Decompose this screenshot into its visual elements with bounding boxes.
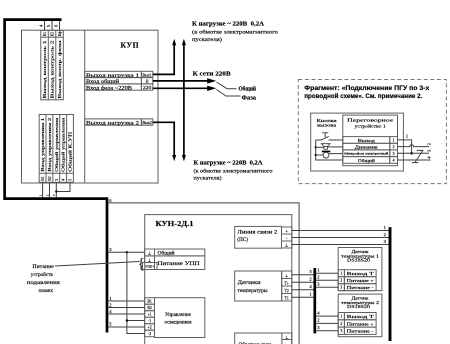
svg-text:⊥: ⊥ xyxy=(148,257,152,262)
wire 3 (cable to KUN common) xyxy=(109,247,145,252)
wire 3 (cable 2 to sensor 2 pin 3) xyxy=(316,325,338,331)
fragment note dashed box xyxy=(298,80,446,184)
svg-text:1: 1 xyxy=(340,315,342,319)
svg-text:⊥: ⊥ xyxy=(285,243,289,248)
svg-text:2: 2 xyxy=(340,279,342,283)
wire 3 (sensor common to cable 2) xyxy=(292,269,314,275)
label K nagruzke top xyxy=(192,21,278,44)
wire 1 (sensor T1 to cable 2) xyxy=(292,292,314,298)
svg-text:Вход управления 1: Вход управления 1 xyxy=(40,117,45,172)
jumper terminal 3 to terminal 5 xyxy=(56,182,70,191)
svg-text:Общий К.УП: Общий К.УП xyxy=(68,131,73,172)
svg-text:⊥: ⊥ xyxy=(285,273,289,278)
svg-text:КУП: КУП xyxy=(121,41,140,50)
svg-text:Датчики: Датчики xyxy=(238,280,261,286)
cable bus to hoistway devices xyxy=(5,20,107,333)
terminal cell UPP+ xyxy=(143,263,158,270)
wire 4 (K1 to cable) xyxy=(39,21,45,30)
block: Liniya svyazi 2 (PS) xyxy=(235,226,292,248)
svg-text:вызова: вызова xyxy=(317,123,336,128)
wire 3 (cable 2 to sensor 1 pin 3) xyxy=(316,281,338,287)
svg-text:Вых2: Вых2 xyxy=(142,120,152,125)
svg-text:+2: +2 xyxy=(148,326,152,330)
svg-text:Общий управления: Общий управления xyxy=(61,117,66,172)
wire 1 (line + to cable 3) xyxy=(292,225,389,231)
junction dot neutral to common xyxy=(183,80,186,83)
svg-text:⊥: ⊥ xyxy=(148,251,152,256)
svg-text:В2: В2 xyxy=(147,306,152,310)
wire pgu 4 (common out) xyxy=(398,156,432,160)
svg-text:К1: К1 xyxy=(43,32,47,37)
svg-text:Вых1: Вых1 xyxy=(142,72,152,77)
label Pitanie ustroystv podavleniya pomeh xyxy=(27,264,60,294)
svg-text:2: 2 xyxy=(393,145,395,149)
group-of-wires slash mark xyxy=(412,150,424,162)
cable bus 3 (communication line) xyxy=(389,227,392,341)
svg-text:К2: К2 xyxy=(51,32,55,37)
fragment outer solid box xyxy=(311,113,404,171)
block: temperature sensor 1 DS18S20 xyxy=(338,248,382,291)
svg-text:устройство 1: устройство 1 xyxy=(355,123,387,128)
brace grouping UPP terminals xyxy=(138,256,145,272)
svg-text:DS18S20: DS18S20 xyxy=(347,304,371,309)
wire mains phase (220 terminal to network) xyxy=(153,86,217,91)
svg-text:Т1: Т1 xyxy=(285,296,289,300)
svg-text:Выход контроль 2: Выход контроль 2 xyxy=(50,39,55,98)
svg-text:В2: В2 xyxy=(48,176,52,181)
svg-text:+1: +1 xyxy=(148,313,152,317)
terminal row: Vyhod nagruzka 1 xyxy=(85,71,153,79)
svg-text:Общий управления: Общий управления xyxy=(54,117,59,172)
svg-text:3: 3 xyxy=(340,329,342,333)
svg-text:Питание -: Питание - xyxy=(347,329,375,334)
svg-text:Вход управления 2: Вход управления 2 xyxy=(47,117,52,172)
svg-text:+: + xyxy=(285,229,288,234)
block: temperature sensor 2 DS18S20 xyxy=(338,294,382,337)
svg-text:1: 1 xyxy=(340,272,342,276)
svg-text:Вход фаза ~220В: Вход фаза ~220В xyxy=(86,84,133,91)
svg-text:-2: -2 xyxy=(148,332,151,336)
terminal block: lighting control rows xyxy=(145,298,205,338)
wire 3 (line common to cable 3) xyxy=(292,239,389,245)
svg-text:В1: В1 xyxy=(41,176,45,181)
svg-text:К нагрузке ~ 220В 0,2А: К нагрузке ~ 220В 0,2А xyxy=(192,21,265,28)
svg-text:-1: -1 xyxy=(148,319,151,323)
svg-text:Выход контроль 1: Выход контроль 1 xyxy=(42,39,47,98)
wire 5 (K2 to cable) xyxy=(46,21,52,30)
svg-text:К нагрузке ~ 220В 0,2А: К нагрузке ~ 220В 0,2А xyxy=(194,159,264,166)
svg-text:Фрагмент: «Подключение ПГУ по: Фрагмент: «Подключение ПГУ по 3-х xyxy=(304,86,430,92)
terminal row: Vhod faza 220V xyxy=(85,84,153,92)
svg-text:220: 220 xyxy=(143,85,152,90)
wire 6a (Kf to cable) xyxy=(54,21,60,30)
svg-text:Выход Т: Выход Т xyxy=(347,271,374,276)
junction dot minus branch xyxy=(126,319,128,321)
wire 2 (line - to cable 3) xyxy=(292,232,389,238)
junction dot on wire 3a xyxy=(55,190,57,192)
leader line to UPP terminals xyxy=(55,262,140,267)
svg-text:(к обмотке электромагнитного: (к обмотке электромагнитного xyxy=(192,29,278,36)
junction dot wire 3 xyxy=(126,251,128,253)
call button symbol xyxy=(316,133,343,140)
block: feedback box (clipped at bottom) xyxy=(235,333,292,344)
svg-text:пускателя): пускателя) xyxy=(192,36,222,43)
wire 4 (cable to +1) xyxy=(109,309,145,314)
svg-text:проводной схеме». См. примечан: проводной схеме». См. примечание 2. xyxy=(304,93,422,100)
block KUN-2D.1 box xyxy=(145,215,292,344)
wire pgu 1 (output joins microphone wire) xyxy=(398,133,412,153)
leader and label Obschiy xyxy=(217,82,257,92)
svg-text:освещением: освещением xyxy=(164,319,192,325)
speaker symbol xyxy=(316,144,343,150)
wire 5 (cable to +2) xyxy=(109,322,145,327)
wire 1a (V1 to cable) xyxy=(39,182,42,197)
junction dot microphone xyxy=(315,154,317,156)
svg-text:КУН-2Д.1: КУН-2Д.1 xyxy=(156,220,195,228)
svg-text:2: 2 xyxy=(340,322,342,326)
svg-text:4: 4 xyxy=(62,179,66,181)
svg-text:Питание: Питание xyxy=(32,264,54,270)
svg-text:В1: В1 xyxy=(147,300,152,304)
block KUP box xyxy=(22,30,159,183)
wire 2 (cable 2 to sensor 1 pin 2) xyxy=(316,274,338,280)
wire 4 (sensor T2 to cable 2) xyxy=(292,284,314,290)
svg-text:(к обмотке электромагнитного: (к обмотке электромагнитного xyxy=(194,167,273,174)
svg-text:Т2: Т2 xyxy=(285,289,289,293)
wire 3a (terminal 3 to cable) xyxy=(53,182,56,197)
microphone symbol xyxy=(316,151,343,159)
svg-text:температуры: температуры xyxy=(238,288,269,294)
wire common minus branch (to -1 and -2) xyxy=(127,252,145,333)
wire mains common (0 terminal to network) xyxy=(153,78,217,83)
wire 6 (cable to bottom) xyxy=(109,198,300,344)
svg-text:Т+: Т+ xyxy=(284,281,288,285)
svg-text:3: 3 xyxy=(55,179,59,181)
svg-text:3: 3 xyxy=(340,286,342,290)
wire neutral vertical (common to both loads) xyxy=(182,39,186,162)
svg-text:Микрофон электретный: Микрофон электретный xyxy=(344,152,388,156)
block: intercom unit 1 xyxy=(343,115,398,166)
svg-text:DS18S20: DS18S20 xyxy=(347,258,371,263)
svg-text:пускателя): пускателя) xyxy=(194,175,222,182)
wire 2a (V2 to cable) xyxy=(46,182,49,197)
svg-text:{: { xyxy=(138,256,145,272)
block: Datchiki temperatury xyxy=(235,271,292,301)
svg-text:Общий: Общий xyxy=(239,85,257,92)
svg-text:Линия связи 2: Линия связи 2 xyxy=(237,230,278,236)
wire pgu 3 (microphone line out) xyxy=(398,149,432,153)
svg-text:⊥: ⊥ xyxy=(285,335,289,340)
svg-text:Выход: Выход xyxy=(358,138,376,143)
svg-text:Выход контр. фазы: Выход контр. фазы xyxy=(57,41,62,99)
svg-text:Выход нагрузка 2: Выход нагрузка 2 xyxy=(86,120,140,126)
svg-text:Переговорное: Переговорное xyxy=(347,118,393,123)
terminal row: Obschiy (KUN) xyxy=(145,249,205,257)
wire 4 (cable 2 to sensor 2 pin 1) xyxy=(316,310,338,316)
svg-text:Питание -: Питание - xyxy=(347,285,375,290)
wire load 2 (Vyh2 down to load) xyxy=(153,122,176,161)
junction dot speaker xyxy=(315,146,317,148)
svg-text:3: 3 xyxy=(393,152,395,156)
terminal column group: control inputs (V1 V2 3 4 5) xyxy=(39,115,73,183)
terminal row: Pitanie UPP xyxy=(145,256,205,270)
wire 1 (cable to V1) xyxy=(109,296,145,301)
junction dot pgu xyxy=(410,152,413,155)
svg-text:Питание +: Питание + xyxy=(347,278,375,283)
svg-text:Фаза: Фаза xyxy=(242,95,257,101)
svg-text:Кф: Кф xyxy=(58,31,62,37)
svg-text:помех: помех xyxy=(39,288,54,294)
svg-text:4: 4 xyxy=(393,159,395,163)
svg-text:Динамик: Динамик xyxy=(355,144,379,149)
svg-text:подавления: подавления xyxy=(27,280,60,286)
terminal row: Vyhod nagruzka 2 xyxy=(85,119,153,127)
terminal column group: outputs control (K1 K2 Kf) xyxy=(41,30,64,99)
cable bus 2 (sensors) xyxy=(313,268,316,333)
wire 1 (cable 2 to sensor 1 pin 1) xyxy=(316,267,338,273)
label K nagruzke bottom xyxy=(194,159,273,181)
wire 2 (cable to V2) xyxy=(109,302,145,307)
svg-text:Управление: Управление xyxy=(165,312,192,318)
wire 2 (cable 2 to sensor 2 pin 2) xyxy=(316,318,338,324)
svg-text:УПП+: УПП+ xyxy=(145,265,154,269)
label K seti 220V xyxy=(193,71,231,78)
svg-text:5: 5 xyxy=(68,179,72,181)
svg-text:1: 1 xyxy=(393,139,395,143)
svg-text:устройств: устройств xyxy=(31,271,53,278)
svg-text:Общий: Общий xyxy=(358,158,376,163)
common wire of call panel xyxy=(316,140,343,160)
wire 2 (sensor T+ to cable 2) xyxy=(292,277,314,283)
wire load 1 (Vyh1 up to load) xyxy=(153,39,176,75)
svg-text:Питание +: Питание + xyxy=(347,321,375,326)
svg-text:Питание УПП: Питание УПП xyxy=(158,261,200,267)
svg-text:(ПС): (ПС) xyxy=(237,236,248,243)
terminal row: Vhod obschiy xyxy=(85,78,153,86)
svg-text:К сети 220В: К сети 220В xyxy=(193,71,231,78)
svg-text:Выход Т: Выход Т xyxy=(347,314,374,319)
leader and label Faza xyxy=(217,90,257,102)
wire pgu 2 (speaker, hops over) xyxy=(398,142,432,146)
